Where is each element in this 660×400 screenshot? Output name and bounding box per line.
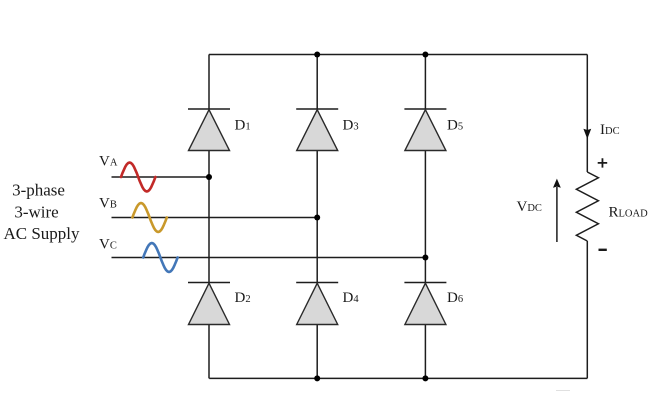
svg-text:AC Supply: AC Supply (3, 224, 80, 243)
svg-text:3-phase: 3-phase (12, 181, 65, 200)
svg-text:3-wire: 3-wire (14, 203, 58, 222)
